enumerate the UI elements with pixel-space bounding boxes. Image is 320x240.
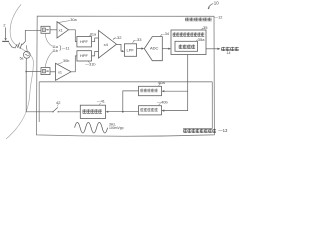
svg-text:—12: —12 (214, 16, 222, 20)
svg-text:—40b: —40b (157, 100, 168, 105)
svg-text:31a: 31a (90, 32, 97, 36)
svg-text:35a: 35a (198, 37, 205, 42)
svg-text:11b: 11b (52, 49, 58, 53)
svg-text:HPF: HPF (80, 39, 89, 44)
svg-text:—33: —33 (133, 37, 142, 42)
svg-text:5a: 5a (20, 56, 24, 60)
svg-text:14: 14 (227, 51, 231, 55)
svg-text:—11: —11 (62, 47, 70, 51)
svg-text:—41: —41 (97, 100, 105, 104)
svg-text:—34: —34 (161, 32, 169, 36)
svg-text:2: 2 (3, 24, 5, 28)
svg-text:40a: 40a (158, 80, 165, 85)
svg-text:35: 35 (203, 25, 208, 30)
svg-text:HPF: HPF (80, 53, 89, 58)
svg-text:LPF: LPF (127, 47, 135, 52)
svg-text:—13: —13 (218, 128, 228, 133)
svg-text:10: 10 (214, 0, 219, 5)
svg-text:—32: —32 (113, 35, 122, 40)
svg-text:42: 42 (56, 100, 61, 105)
svg-text:100mVpp: 100mVpp (109, 126, 124, 130)
svg-text:x1: x1 (58, 70, 62, 74)
svg-text:ADC: ADC (150, 46, 159, 51)
svg-text:30a: 30a (70, 18, 77, 22)
svg-text:x1: x1 (59, 28, 63, 32)
svg-text:—31b: —31b (85, 63, 95, 67)
svg-text:30b: 30b (63, 59, 69, 63)
